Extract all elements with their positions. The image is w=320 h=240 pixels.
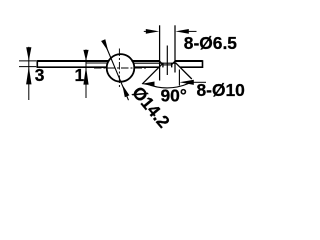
countersink right wall xyxy=(172,61,175,64)
countersink 90° left wing extension xyxy=(142,63,163,84)
plate top surface line xyxy=(37,60,202,62)
dimension 3: vertical dimension line xyxy=(28,47,30,100)
svg-text:8-Ø10: 8-Ø10 xyxy=(197,80,245,100)
dimension 8-Ø6.5: extension line right xyxy=(174,25,176,72)
dimension 3: upper arrowhead pointing down xyxy=(26,47,31,61)
circle horizontal centerline xyxy=(94,67,147,69)
left arrowhead pointing left at wing xyxy=(141,82,154,87)
plate left end edge xyxy=(36,60,38,68)
leader upper arrowhead pointing down-right xyxy=(101,39,108,51)
hole circle Ø14.2 xyxy=(107,54,135,82)
90° angular dimension arc xyxy=(147,83,189,88)
plate right end edge xyxy=(202,60,204,68)
recess step line right of circle xyxy=(133,62,176,64)
circle vertical centerline xyxy=(118,49,120,88)
dimension 8-Ø6.5: right tail with arrowhead pointing left xyxy=(188,30,197,32)
plate bottom surface line xyxy=(37,66,202,68)
8-Ø10 leader arrowhead pointing left xyxy=(180,80,194,85)
svg-text:8-Ø6.5: 8-Ø6.5 xyxy=(184,33,237,53)
countersink 90° right wing extension xyxy=(176,63,192,79)
hole right wall vertical xyxy=(171,63,173,68)
dimension 3: extension lines xyxy=(19,61,36,67)
countersink left wall xyxy=(160,61,163,64)
dimension 1: upper arrowhead pointing down xyxy=(83,50,88,61)
dimension 8-Ø6.5: left tail with arrowhead pointing right xyxy=(144,30,147,32)
8-Ø10 leader tail xyxy=(192,81,206,83)
dimension 1: vertical dimension line xyxy=(85,50,87,99)
recess step line left of circle xyxy=(86,62,108,64)
svg-text:1: 1 xyxy=(75,65,85,85)
Ø10 right extension line vertical xyxy=(178,70,180,86)
dimension 8-Ø6.5: extension line left xyxy=(159,25,161,80)
dimension 1: lower arrowhead pointing up xyxy=(83,67,88,85)
leader line for Ø14.2 through circle xyxy=(104,42,129,101)
countersunk hole centerline xyxy=(166,46,168,76)
svg-text:90°: 90° xyxy=(161,86,187,106)
hole left wall vertical xyxy=(162,63,164,68)
dimension 3: lower arrowhead pointing up xyxy=(26,67,31,85)
svg-text:3: 3 xyxy=(35,65,45,85)
leader lower arrowhead pointing up-left xyxy=(122,85,129,98)
countersink bottom edge xyxy=(163,64,172,66)
